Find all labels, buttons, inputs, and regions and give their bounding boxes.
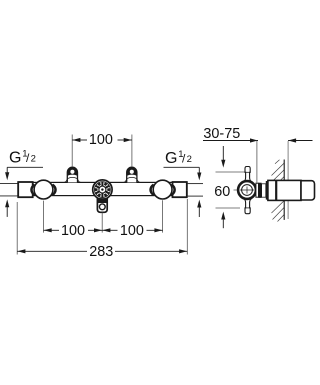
- side: horizontal axis: [234, 189, 259, 191]
- svg-text:60: 60: [214, 184, 230, 200]
- node: left port centerline: [71, 135, 73, 168]
- node: right port centerline: [131, 135, 133, 168]
- svg-text:30-75: 30-75: [203, 126, 240, 142]
- side: vertical axis through ports: [246, 167, 248, 213]
- svg-text:100: 100: [89, 132, 113, 148]
- dimension: top 100: [72, 139, 132, 141]
- left valve circle: [34, 180, 53, 199]
- side: upper port: [244, 167, 252, 182]
- svg-text:2: 2: [31, 154, 36, 165]
- side: block joint line: [275, 181, 277, 201]
- side: valve circular body: [238, 181, 256, 199]
- left valve boss: [31, 182, 55, 197]
- center outlet: [97, 199, 107, 212]
- right end cap: [173, 182, 187, 197]
- side: main block through wall: [268, 180, 301, 200]
- wall hatch upper: [272, 160, 285, 180]
- svg-text:100: 100: [120, 223, 144, 239]
- dimension: bottom right 100: [102, 229, 162, 231]
- node: right valve centerline: [162, 200, 164, 232]
- label: G 1/2 left: [5, 149, 43, 217]
- wall line (finished face): [283, 160, 285, 220]
- svg-text:G: G: [165, 150, 177, 167]
- side: lower port: [244, 199, 252, 214]
- dimension: 283 overall: [16, 202, 18, 255]
- wire: G1/2 left extension lines (bore): [0, 183, 18, 196]
- left end cap: [18, 182, 33, 197]
- right upper port: [123, 167, 140, 182]
- bar tube: [18, 182, 187, 195]
- dimension: 30-75: [203, 126, 313, 183]
- side: white spacer: [262, 184, 266, 197]
- center wheel valve: [93, 180, 112, 199]
- right valve boss: [150, 182, 174, 197]
- wall second line: [287, 141, 289, 219]
- side: dark ring 1: [258, 183, 261, 198]
- label: G 1/2 right: [164, 149, 204, 217]
- wall hatch lower: [272, 201, 285, 222]
- side: dark ring 2: [266, 181, 268, 200]
- left upper port: [64, 167, 81, 182]
- right valve circle: [153, 180, 172, 199]
- side: collar: [256, 183, 259, 197]
- node: left valve centerline: [43, 201, 45, 233]
- side: end cap: [301, 181, 315, 200]
- svg-text:2: 2: [187, 154, 192, 165]
- dimension: 60: [214, 146, 244, 228]
- svg-text:100: 100: [61, 223, 85, 239]
- svg-text:283: 283: [89, 244, 113, 260]
- node: center outlet centerline: [101, 213, 103, 233]
- dimension: bottom left 100: [44, 229, 103, 231]
- svg-text:G: G: [9, 150, 21, 167]
